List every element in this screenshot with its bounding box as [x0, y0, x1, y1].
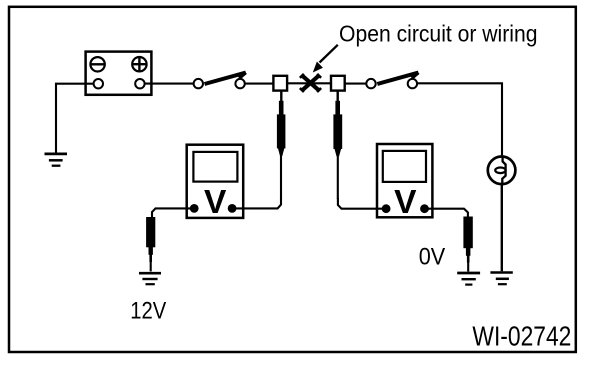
svg-text:WI-02742: WI-02742 [472, 320, 571, 351]
wire voltmeter M2 positive lead [425, 209, 468, 218]
probe P2 (into connector J1) [277, 92, 286, 200]
svg-text:0V: 0V [419, 244, 446, 271]
voltmeter M1 negative terminal dot [190, 204, 199, 213]
battery positive post circle [135, 79, 144, 88]
ground G1 (battery) [45, 154, 68, 166]
svg-text:V: V [204, 184, 227, 221]
probe P3 (into connector J2) [333, 92, 342, 200]
voltmeter M1 body [187, 145, 244, 218]
wire battery negative to ground [56, 84, 94, 153]
voltmeter M2 positive terminal dot [420, 204, 429, 213]
lamp L1 [488, 157, 516, 185]
connector J2 (square) [331, 76, 345, 91]
battery positive terminal symbol [132, 57, 146, 71]
probe P1 (to ground, 12V reading) [146, 217, 155, 271]
wire switch S2 to lamp L1 [417, 83, 502, 157]
wire battery positive to switch S1 [145, 83, 194, 85]
wire voltmeter M1 positive lead [232, 198, 281, 208]
voltmeter M1 display [193, 152, 237, 182]
svg-text:12V: 12V [130, 298, 166, 325]
svg-text:V: V [394, 184, 417, 221]
svg-text:Open circuit or wiring: Open circuit or wiring [339, 21, 538, 47]
battery negative post circle [94, 79, 103, 88]
wire voltmeter M2 negative lead [338, 198, 386, 209]
ground G2 (lamp) [490, 273, 512, 285]
open-circuit X mark [300, 74, 321, 92]
ground G3 (probe P1) [139, 273, 161, 284]
voltmeter M2 body [377, 144, 432, 217]
wire voltmeter M1 negative lead [152, 208, 194, 218]
switch S2 [366, 73, 418, 89]
wire connector J2 to switch S2 [345, 83, 367, 85]
wire connector J1 to connector J2 (broken segment) [287, 82, 331, 84]
voltmeter M2 negative terminal dot [382, 204, 391, 213]
connector J1 (square) [273, 76, 287, 91]
switch S1 [194, 73, 246, 89]
voltmeter M1 positive terminal dot [228, 204, 237, 213]
annotation arrow [313, 45, 338, 73]
wire lamp L1 to ground [501, 184, 503, 271]
battery B1 body [86, 52, 152, 95]
voltmeter M2 display [383, 151, 426, 182]
probe P4 (to ground, 0V reading) [463, 217, 472, 272]
battery negative terminal symbol [90, 57, 104, 71]
wire switch S1 to connector J1 [245, 83, 274, 85]
ground G4 (probe P4) [457, 273, 480, 285]
